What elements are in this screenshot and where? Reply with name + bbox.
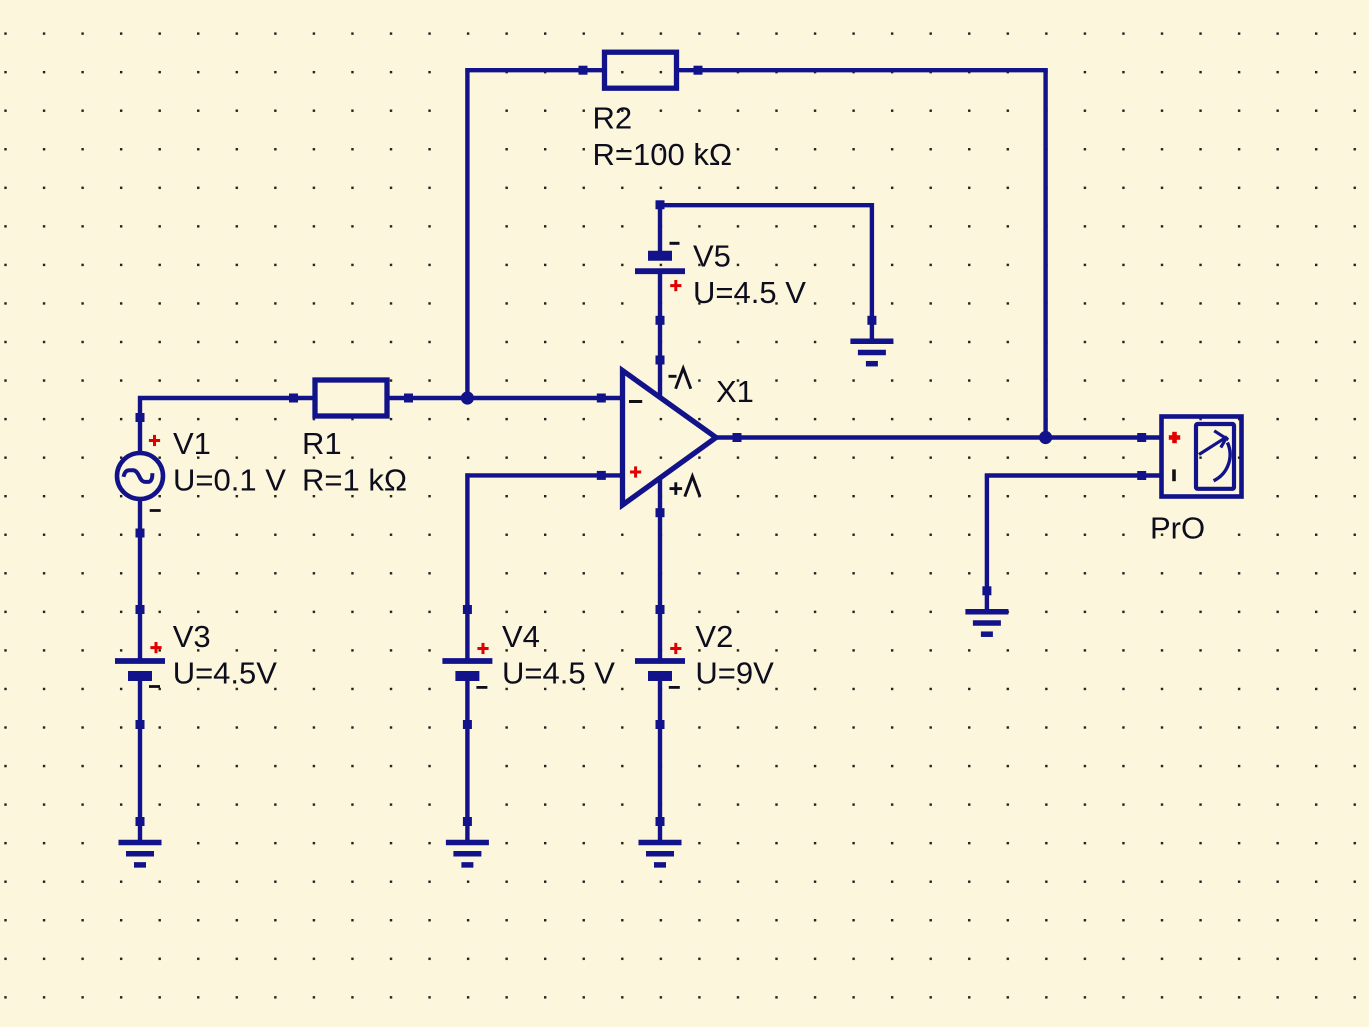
node X1 output pin [733,433,742,442]
svg-text:V3: V3 [173,619,211,654]
wire down to ground G4 [870,203,874,322]
node R2 pin 1 [579,66,588,75]
AC source V1 [117,418,163,534]
ground G3 (under V2) [639,822,682,865]
minus mark V4 - [476,686,487,689]
voltmeter PrO [1142,417,1242,497]
plus mark V1 + [149,435,160,446]
X1 V- pin label [669,368,691,388]
node G5 (meter return) pad [982,586,991,595]
svg-text:U=4.5V: U=4.5V [173,656,278,691]
node PrO minus pin [1137,471,1146,480]
resistor R2 [583,52,698,88]
wire riser to R2 [465,68,585,72]
node V4 top pin [463,605,472,614]
wire down to ground G5 [985,474,989,591]
node R1 pin 2 [404,394,413,403]
node V5 top pin [656,200,665,209]
node V4 bottom pin [463,720,472,729]
node V2 top pin [656,605,665,614]
node X1 noninverting input pin [597,471,606,480]
plus mark V3 + [150,642,161,653]
node X1 V+ pin [656,508,665,517]
wire V2 to ground G3 [658,725,662,822]
svg-text:U=9V: U=9V [695,656,774,691]
node G4 (V5 return) pad [867,316,876,325]
node R1 pin 1 [289,394,298,403]
resistor R1 [294,380,409,416]
minus mark V5 - [670,242,680,245]
svg-text:PrO: PrO [1150,511,1205,546]
minus mark V3 - [149,685,160,688]
node G2 (under V4) pad [463,817,472,826]
svg-text:R1: R1 [302,426,342,461]
svg-text:X1: X1 [716,374,754,409]
plus mark V5 + [670,280,681,291]
wire V3 to ground G1 [138,725,142,822]
node V2 bottom pin [656,720,665,729]
svg-text:U=4.5 V: U=4.5 V [693,275,806,310]
plus mark V2 + [670,643,681,654]
svg-text:V2: V2 [695,619,733,654]
wire op-amp output to meter plus [734,435,1144,439]
battery V2 [635,610,685,725]
ground G4 (V5 return) [850,320,893,363]
node X1 V- pin [656,356,665,365]
wire right riser down to output [1043,68,1047,439]
node PrO plus pin [1137,433,1146,442]
node G3 (under V2) pad [656,817,665,826]
node V1 plus pin [136,413,145,422]
battery V4 [442,610,492,725]
wire V1 top to corner [138,396,142,418]
wire R2 to right riser [696,68,1048,72]
svg-text:V1: V1 [173,426,211,461]
svg-text:R2: R2 [593,101,633,136]
node V5 bottom pin [656,316,665,325]
X1 V+ pin label [670,476,701,496]
wire R1 to op-amp inverting input [407,396,604,400]
node X1 inverting input pin [597,394,606,403]
junction node B (output net) [1039,431,1052,444]
svg-text:U=4.5 V: U=4.5 V [502,656,615,691]
wire V4 to ground G2 [465,725,469,822]
ground G1 (under V3) [119,822,162,865]
node V1 minus pin [136,529,145,538]
svg-text:U=0.1 V: U=0.1 V [173,463,286,498]
wire V1 bottom to V3 [138,533,142,610]
battery V3 [115,610,165,725]
wire op-amp V+ pin to V2 [658,514,662,609]
wire op-amp noninverting to corner [465,473,603,477]
wire corner to R1 [138,396,296,400]
plus mark PrO + [1169,432,1180,443]
ground G5 (meter return) [965,591,1008,634]
svg-text:R=100 kΩ: R=100 kΩ [593,137,733,172]
minus mark PrO - [1172,469,1176,481]
op-amp X1 [623,371,717,506]
svg-text:R=1 kΩ: R=1 kΩ [302,463,407,498]
minus mark V2 - [669,686,680,689]
wire corner down to V4 [465,473,469,611]
plus mark X1 noninverting marker [630,466,641,477]
node V3 bottom pin [136,720,145,729]
wire V5 top to ground stub [658,203,874,207]
minus mark V1 - [150,509,161,512]
minus mark X1 inverting marker [629,400,642,403]
wire V5 bottom to op-amp V- pin [658,320,662,358]
node V3 top pin [136,605,145,614]
plus mark V4 + [477,643,488,654]
wire feedback riser [465,68,469,400]
junction node A (inverting input net) [461,391,474,404]
wire meter minus to corner [985,473,1144,477]
battery V5 [635,205,685,320]
node R2 pin 2 [694,66,703,75]
node G1 (under V3) pad [136,817,145,826]
ground G2 (under V4) [446,822,489,865]
svg-text:V4: V4 [502,619,540,654]
svg-text:V5: V5 [693,239,731,274]
